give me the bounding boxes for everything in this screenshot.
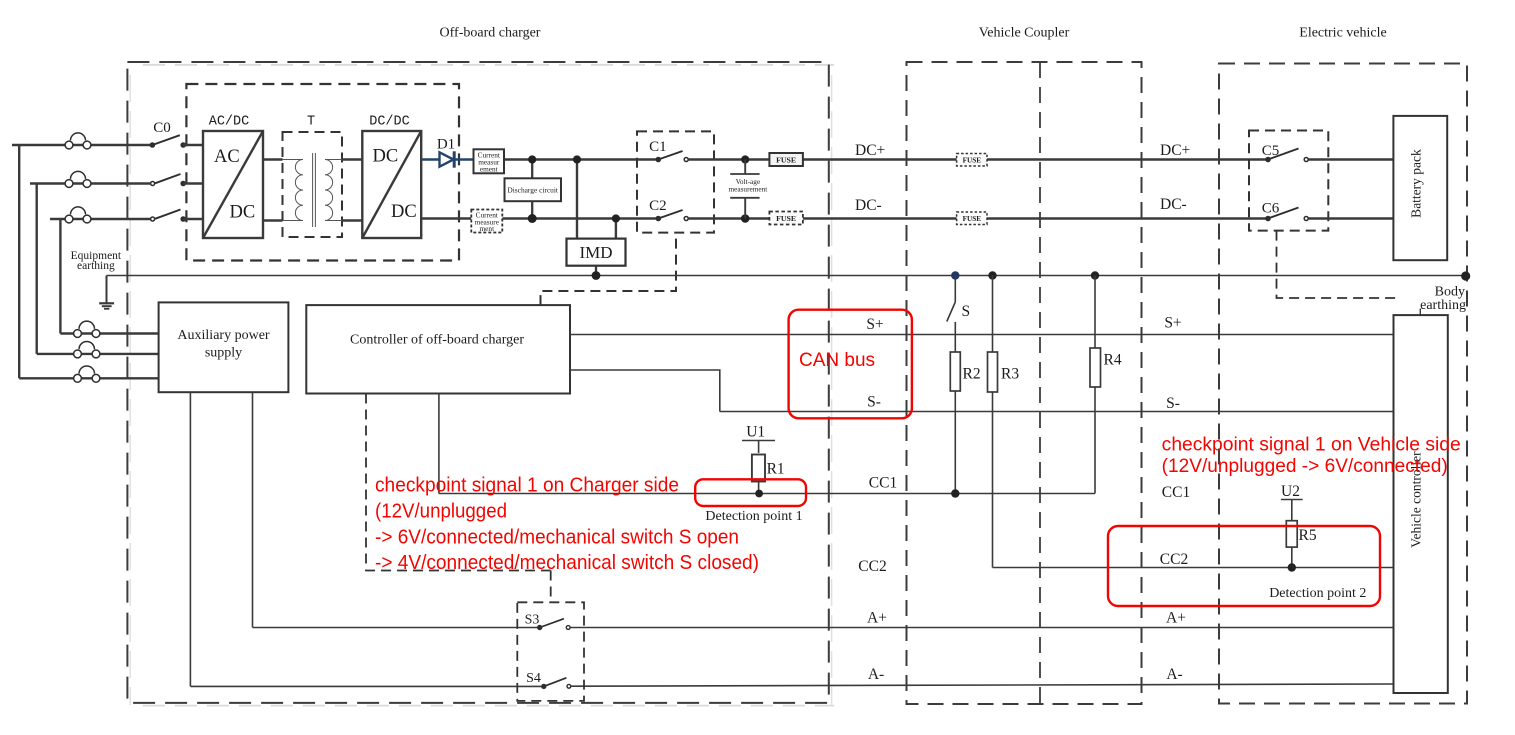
breaker symbol aux 2 bbox=[74, 342, 100, 358]
svg-text:A-: A- bbox=[1166, 666, 1182, 683]
wire A- line left bbox=[190, 685, 543, 687]
breaker symbol aux 1 bbox=[74, 321, 100, 337]
CAN bus red callout box bbox=[789, 310, 912, 419]
svg-text:Vehicle Coupler: Vehicle Coupler bbox=[979, 26, 1070, 41]
resistor R2 bbox=[950, 352, 960, 391]
svg-text:A+: A+ bbox=[1166, 610, 1186, 627]
wire DC- C2 to coupler to C6 bbox=[688, 217, 1268, 219]
wire phase L3 bbox=[50, 218, 151, 220]
wire aux feed 3 bbox=[19, 377, 159, 379]
node detection point 1 junction bbox=[755, 490, 763, 498]
wire PE earth rail bbox=[107, 275, 1466, 277]
node DC- IMD junction bbox=[612, 214, 620, 222]
wire R5 to CC2 bbox=[1291, 547, 1293, 567]
svg-text:checkpoint signal 1 on Charger: checkpoint signal 1 on Charger side bbox=[375, 475, 679, 497]
wire R3 to CC2 bbox=[992, 392, 994, 568]
svg-text:AC: AC bbox=[214, 147, 240, 167]
node DC+ IMD junction bbox=[573, 155, 581, 163]
ground symbol equipment earth bbox=[99, 276, 114, 309]
converter group dashed enclosure bbox=[186, 84, 459, 261]
wire R2 to CC1 bbox=[954, 391, 956, 494]
wire DC+ rail charger bbox=[504, 158, 658, 160]
svg-text:CAN bus: CAN bus bbox=[799, 350, 875, 371]
wire bus L3 vertical bbox=[59, 219, 61, 334]
svg-text:D1: D1 bbox=[437, 137, 455, 153]
wire PE to R3 bbox=[992, 276, 994, 353]
svg-text:DC: DC bbox=[373, 147, 399, 167]
switch S3 bbox=[537, 619, 570, 631]
svg-text:FUSE: FUSE bbox=[963, 156, 982, 164]
wire C5 to battery bbox=[1308, 158, 1393, 160]
fuse F2 (DC-) dashed bbox=[769, 212, 803, 225]
svg-text:T: T bbox=[307, 115, 315, 130]
wire discharge circuit top bbox=[531, 160, 533, 179]
resistor R4 bbox=[1090, 348, 1101, 387]
node detection point 2 junction bbox=[1288, 563, 1296, 571]
svg-text:R1: R1 bbox=[767, 460, 785, 477]
svg-text:earthing: earthing bbox=[1420, 298, 1466, 313]
svg-text:measurement: measurement bbox=[728, 185, 767, 194]
dashed link C5/C6 box to vehicle controller bbox=[1277, 231, 1401, 298]
svg-text:Off-board charger: Off-board charger bbox=[440, 26, 541, 41]
svg-text:DC-: DC- bbox=[855, 197, 882, 214]
wire aux feed 2 bbox=[37, 353, 159, 355]
svg-text:-> 4V/connected/mechanical swi: -> 4V/connected/mechanical switch S clos… bbox=[375, 552, 759, 574]
breaker symbol aux 3 bbox=[74, 366, 100, 382]
svg-text:DC: DC bbox=[230, 203, 256, 223]
contactor C1 bbox=[656, 151, 689, 162]
svg-text:S+: S+ bbox=[866, 316, 883, 333]
current measurement block (DC+) bbox=[474, 149, 505, 173]
auxiliary power supply block bbox=[159, 302, 289, 392]
node IMD earth junction bbox=[592, 271, 601, 280]
svg-text:Auxiliary power: Auxiliary power bbox=[177, 328, 269, 343]
svg-text:S3: S3 bbox=[525, 613, 540, 628]
wire S- line bbox=[720, 411, 1394, 413]
wire T to DC/DC top bbox=[342, 158, 362, 160]
wire aux feed 1 bbox=[60, 332, 159, 334]
svg-text:A-: A- bbox=[868, 666, 884, 683]
fuse F1 (DC+) bbox=[769, 153, 803, 166]
wire DC+ C1 to coupler to C5 bbox=[688, 158, 1268, 160]
red annotation checkpoint charger side bbox=[375, 475, 759, 575]
svg-text:AC/DC: AC/DC bbox=[209, 115, 250, 130]
svg-text:CC2: CC2 bbox=[1160, 551, 1188, 568]
svg-text:R4: R4 bbox=[1104, 352, 1122, 369]
svg-text:FUSE: FUSE bbox=[776, 214, 796, 223]
svg-text:U1: U1 bbox=[746, 423, 765, 440]
transformer T dashed box bbox=[283, 132, 343, 237]
svg-text:IMD: IMD bbox=[579, 243, 612, 262]
wire C6 to battery bbox=[1308, 217, 1393, 219]
wire T to DC/DC bottom bbox=[342, 219, 362, 221]
IMD block bbox=[567, 239, 626, 266]
svg-text:earthing: earthing bbox=[77, 260, 115, 272]
svg-text:Controller of off-board charge: Controller of off-board charger bbox=[350, 333, 524, 348]
current measurement block (DC-) dashed bbox=[471, 210, 502, 234]
discharge circuit block bbox=[505, 178, 562, 201]
svg-text:S-: S- bbox=[1166, 395, 1180, 412]
wire controller to S- bbox=[570, 370, 720, 412]
svg-text:S+: S+ bbox=[1164, 315, 1181, 332]
svg-text:A+: A+ bbox=[867, 610, 887, 627]
wire aux to A+ vertical bbox=[252, 392, 254, 627]
switch S bbox=[947, 276, 956, 353]
contactor C0 pole 3 bbox=[151, 210, 203, 222]
svg-text:Battery pack: Battery pack bbox=[1409, 149, 1424, 218]
svg-text:C0: C0 bbox=[153, 120, 171, 136]
voltage measurement probe bbox=[730, 160, 759, 219]
svg-text:checkpoint signal 1 on Vehicle: checkpoint signal 1 on Vehicle side bbox=[1162, 435, 1461, 456]
wire AC/DC to T bottom bbox=[263, 219, 283, 221]
svg-text:(12V/unplugged -> 6V/connected: (12V/unplugged -> 6V/connected) bbox=[1162, 456, 1448, 477]
svg-text:Detection point 1: Detection point 1 bbox=[705, 509, 802, 524]
svg-text:C2: C2 bbox=[649, 198, 667, 214]
node DC- voltage measurement junction bbox=[741, 214, 750, 223]
contactor C1/C2 dashed box bbox=[637, 131, 714, 232]
wire IMD from DC+ bbox=[576, 160, 578, 239]
wire CC2 line bbox=[993, 567, 1394, 569]
svg-text:CC2: CC2 bbox=[858, 558, 886, 575]
node DC+ discharge junction bbox=[528, 155, 536, 163]
wire U2 to R5 bbox=[1291, 500, 1293, 521]
svg-text:R2: R2 bbox=[963, 366, 981, 383]
wire PE to R4 bbox=[1094, 276, 1096, 349]
switch S4 bbox=[541, 678, 571, 689]
resistor R1 bbox=[752, 455, 765, 482]
wire AC/DC to T top bbox=[263, 158, 283, 160]
controller of off-board charger block bbox=[306, 305, 570, 393]
svg-text:(12V/unplugged: (12V/unplugged bbox=[375, 500, 507, 522]
node PE to switch S junction bbox=[951, 271, 959, 279]
vehicle coupler middle dashed divider bbox=[1039, 62, 1041, 704]
svg-text:DC/DC: DC/DC bbox=[369, 115, 410, 130]
svg-text:FUSE: FUSE bbox=[963, 215, 982, 223]
svg-text:R3: R3 bbox=[1001, 366, 1019, 383]
wire IMD to earth bbox=[595, 266, 597, 276]
resistor R3 bbox=[988, 352, 998, 392]
wire CC1 line bbox=[439, 493, 1095, 495]
wire U1 to R1 bbox=[758, 441, 760, 454]
fuse F3 (coupler DC+) dotted bbox=[957, 154, 987, 167]
wire aux to A- vertical bbox=[189, 392, 191, 686]
wire R1 to CC1 bbox=[758, 482, 760, 494]
contactor C5/C6 dashed box bbox=[1249, 131, 1328, 231]
contactor C5 bbox=[1265, 149, 1308, 163]
DC/DC converter U bbox=[362, 131, 421, 238]
svg-text:Detection point 2: Detection point 2 bbox=[1269, 586, 1366, 601]
diode D1 bbox=[421, 151, 473, 167]
AC/DC converter U bbox=[203, 131, 263, 238]
wire A+ line left bbox=[253, 627, 540, 629]
svg-text:CC1: CC1 bbox=[869, 475, 897, 492]
node R2 CC1 junction bbox=[951, 489, 959, 497]
dashed link IMD section to controller bbox=[541, 233, 677, 305]
svg-text:CC1: CC1 bbox=[1162, 484, 1190, 501]
resistor R5 bbox=[1286, 521, 1297, 547]
wire controller to CC1 bbox=[438, 394, 440, 494]
detection point 1 red callout bbox=[695, 479, 806, 506]
wire IMD from DC- bbox=[615, 219, 617, 239]
contactor C0 pole 2 bbox=[151, 174, 203, 186]
wire body earth tick to vehicle controller bbox=[1419, 309, 1421, 320]
svg-text:DC+: DC+ bbox=[855, 142, 885, 159]
contactor C6 bbox=[1265, 208, 1308, 222]
svg-text:R5: R5 bbox=[1299, 527, 1317, 544]
svg-text:DC+: DC+ bbox=[1160, 142, 1190, 159]
wire phase L1 bbox=[12, 144, 150, 146]
svg-text:-> 6V/connected/mechanical swi: -> 6V/connected/mechanical switch S open bbox=[375, 526, 739, 548]
electric vehicle dashed enclosure bbox=[1219, 64, 1467, 704]
wire DC- rail charger bbox=[421, 217, 471, 219]
dashed enclosure around controller low-voltage section bbox=[366, 394, 551, 571]
svg-text:S: S bbox=[962, 303, 971, 320]
vehicle coupler dashed enclosure bbox=[907, 62, 1142, 704]
battery pack bbox=[1393, 116, 1447, 260]
svg-text:ment: ment bbox=[480, 224, 495, 233]
wire bus L1 vertical bbox=[18, 145, 20, 378]
wire A- line right bbox=[571, 684, 1394, 686]
svg-text:Discharge circuit: Discharge circuit bbox=[507, 186, 558, 195]
wire S+ line bbox=[570, 334, 1394, 336]
vehicle controller block bbox=[1394, 315, 1448, 693]
off-board charger dashed enclosure bbox=[127, 62, 834, 706]
svg-text:supply: supply bbox=[205, 346, 242, 361]
svg-text:U2: U2 bbox=[1281, 483, 1300, 500]
fuse F4 (coupler DC-) dotted bbox=[957, 212, 987, 225]
wire phase L2 bbox=[30, 182, 151, 184]
dashed link controller to S3/S4 box bbox=[550, 571, 552, 603]
red annotation checkpoint vehicle side bbox=[1162, 435, 1461, 477]
svg-text:ement: ement bbox=[480, 164, 498, 173]
svg-text:S-: S- bbox=[867, 394, 881, 411]
U1 terminal bar bbox=[742, 440, 775, 442]
contactor C0 pole 1 bbox=[150, 135, 203, 148]
wire A+ line right bbox=[570, 627, 1393, 629]
transformer T windings and core bbox=[283, 153, 343, 227]
svg-text:FUSE: FUSE bbox=[776, 156, 796, 165]
wire discharge circuit bottom bbox=[531, 201, 533, 218]
contactor C2 bbox=[656, 210, 689, 221]
wire bus L2 vertical bbox=[36, 184, 38, 354]
svg-text:Electric vehicle: Electric vehicle bbox=[1299, 26, 1386, 41]
svg-text:DC: DC bbox=[391, 202, 417, 222]
svg-text:C6: C6 bbox=[1262, 201, 1280, 217]
breaker symbol phase L2 bbox=[65, 171, 91, 187]
svg-text:DC-: DC- bbox=[1160, 196, 1187, 213]
U2 terminal bar bbox=[1281, 499, 1303, 501]
detection point 2 red callout bbox=[1108, 526, 1380, 606]
node body earthing junction bbox=[1461, 271, 1470, 280]
switch S3/S4 dashed box bbox=[517, 602, 584, 701]
breaker symbol phase L1 bbox=[65, 133, 91, 149]
node PE to R4 junction bbox=[1091, 271, 1099, 279]
node DC+ voltage measurement junction bbox=[741, 155, 749, 163]
breaker symbol phase L3 bbox=[65, 207, 91, 223]
node PE to R3 junction bbox=[988, 271, 996, 279]
svg-text:C1: C1 bbox=[649, 139, 667, 155]
node DC- discharge junction bbox=[528, 214, 537, 223]
wire R4 to CC1 bbox=[1094, 387, 1096, 494]
svg-text:S4: S4 bbox=[526, 671, 541, 686]
